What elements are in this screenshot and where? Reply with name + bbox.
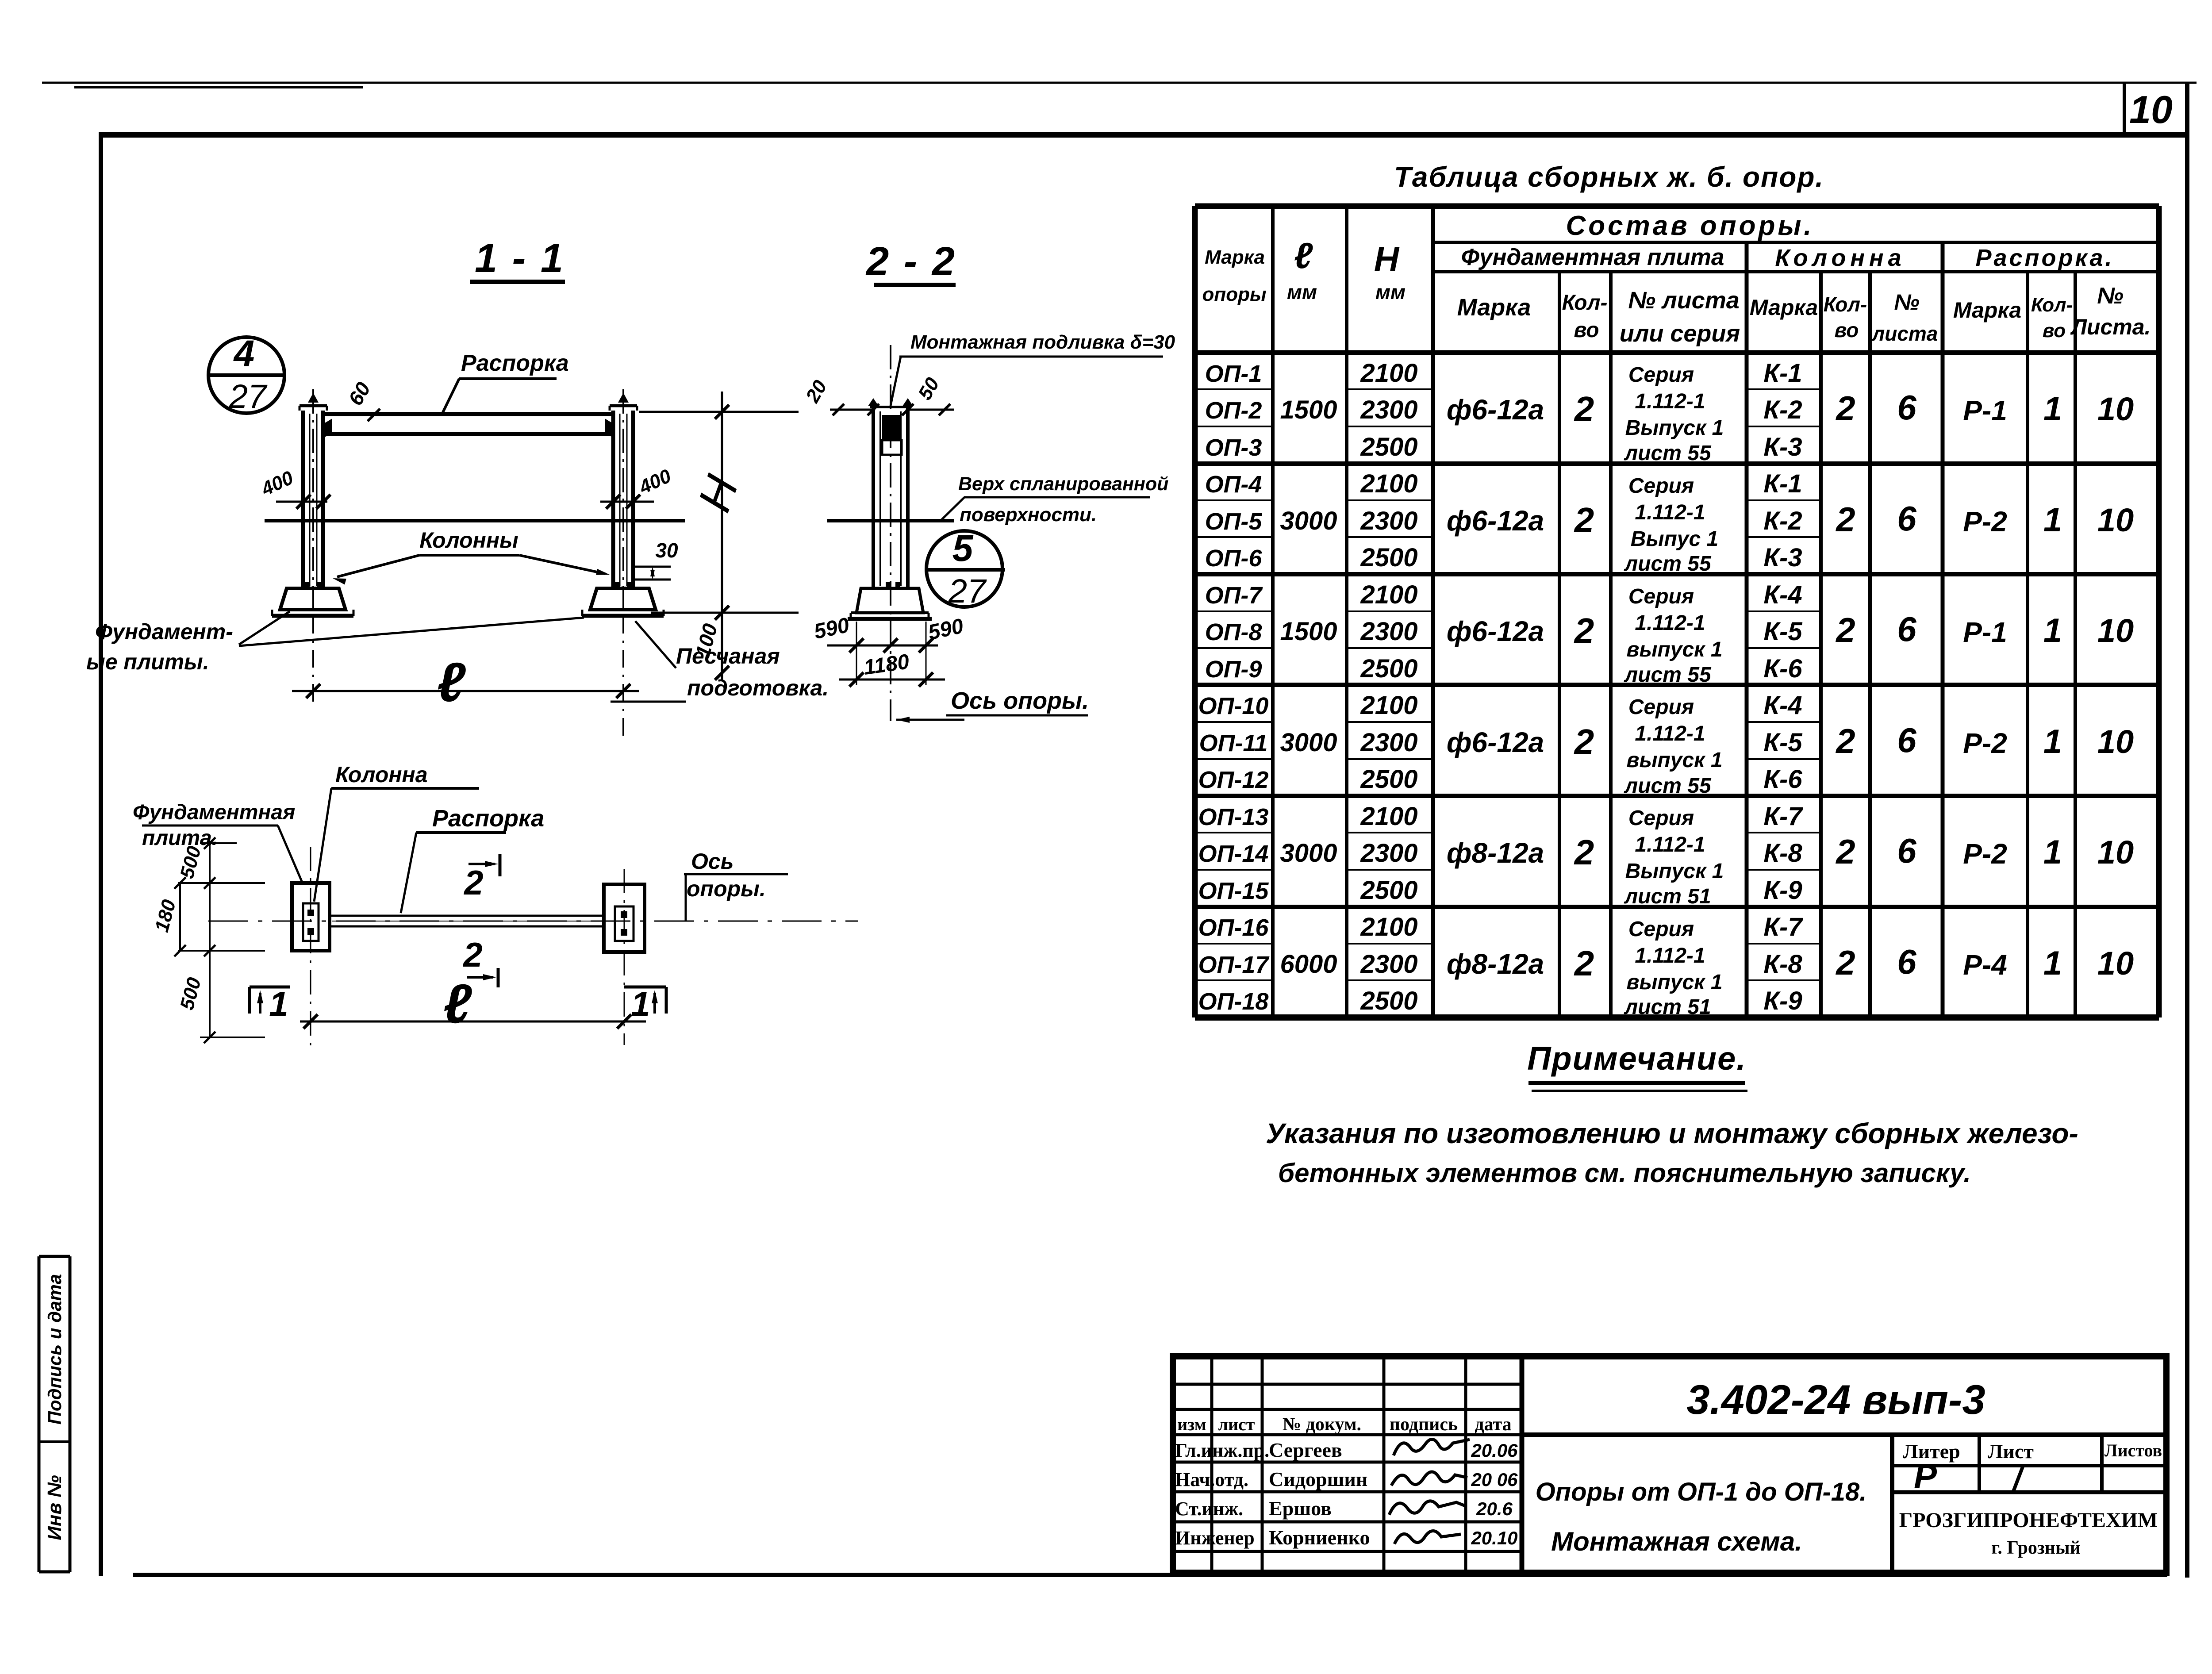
svg-text:ые плиты.: ые плиты. — [86, 649, 209, 674]
svg-text:поверхности.: поверхности. — [960, 504, 1097, 526]
svg-text:К-9: К-9 — [1763, 987, 1802, 1015]
svg-text:2300: 2300 — [1360, 839, 1417, 868]
svg-text:Кол-: Кол- — [1824, 293, 1867, 316]
svg-text:5: 5 — [952, 527, 974, 569]
svg-text:2: 2 — [1835, 610, 1855, 649]
svg-text:2100: 2100 — [1360, 359, 1417, 388]
svg-text:№ листа: № листа — [1628, 287, 1740, 314]
svg-text:1.112-1: 1.112-1 — [1635, 722, 1705, 745]
svg-text:Корниенко: Корниенко — [1269, 1526, 1370, 1549]
svg-text:Ст.инж.: Ст.инж. — [1175, 1498, 1243, 1520]
svg-text:Р-1: Р-1 — [1963, 395, 2007, 426]
svg-text:30: 30 — [655, 539, 678, 562]
svg-text:ОП-4: ОП-4 — [1205, 471, 1262, 498]
svg-text:дата: дата — [1475, 1414, 1511, 1435]
svg-text:Фундаментная: Фундаментная — [133, 801, 295, 824]
svg-text:1500: 1500 — [1280, 617, 1337, 646]
svg-text:К-2: К-2 — [1763, 395, 1802, 424]
svg-text:ОП-16: ОП-16 — [1198, 914, 1269, 941]
svg-text:Фундаментная плита: Фундаментная плита — [1461, 244, 1724, 270]
svg-text:Выпус 1: Выпус 1 — [1631, 527, 1718, 551]
svg-text:Верх спланированной: Верх спланированной — [958, 473, 1168, 495]
svg-text:Р-2: Р-2 — [1963, 727, 2007, 759]
svg-text:К-8: К-8 — [1763, 950, 1802, 979]
svg-text:Р: Р — [1914, 1457, 1937, 1496]
svg-text:2: 2 — [1574, 833, 1594, 872]
svg-text:Распорка: Распорка — [461, 350, 569, 376]
svg-text:лист 55: лист 55 — [1624, 552, 1712, 576]
svg-text:Лист: Лист — [1988, 1440, 2034, 1463]
svg-text:во: во — [2043, 320, 2066, 342]
svg-text:подпись: подпись — [1390, 1414, 1458, 1435]
svg-text:К-7: К-7 — [1763, 913, 1803, 941]
svg-text:Р-4: Р-4 — [1963, 949, 2007, 981]
svg-text:1: 1 — [631, 984, 650, 1023]
svg-text:К-4: К-4 — [1763, 580, 1802, 609]
svg-text:6: 6 — [1897, 388, 1916, 427]
svg-text:№: № — [1894, 290, 1919, 315]
svg-text:Кол-: Кол- — [2031, 294, 2073, 316]
svg-text:2300: 2300 — [1360, 728, 1417, 757]
svg-text:500: 500 — [176, 975, 205, 1012]
svg-text:3000: 3000 — [1280, 728, 1337, 757]
svg-text:2500: 2500 — [1360, 876, 1417, 905]
svg-text:выпуск 1: выпуск 1 — [1626, 971, 1722, 994]
svg-text:27: 27 — [229, 378, 268, 415]
svg-text:ГРОЗГИПРОНЕФТЕХИМ: ГРОЗГИПРОНЕФТЕХИМ — [1899, 1509, 2158, 1532]
svg-text:10: 10 — [2097, 834, 2134, 871]
svg-text:2500: 2500 — [1360, 987, 1417, 1015]
svg-text:ОП-14: ОП-14 — [1198, 841, 1269, 867]
svg-text:1.112-1: 1.112-1 — [1635, 611, 1705, 635]
svg-text:Серия: Серия — [1628, 363, 1694, 387]
svg-text:Серия: Серия — [1628, 918, 1694, 941]
svg-text:1.112-1: 1.112-1 — [1635, 501, 1705, 524]
svg-text:10: 10 — [2097, 723, 2134, 760]
svg-text:2: 2 — [463, 863, 483, 902]
svg-text:10: 10 — [2097, 945, 2134, 982]
svg-text:Серия: Серия — [1628, 806, 1694, 830]
svg-text:2: 2 — [1835, 500, 1855, 539]
svg-text:20.6: 20.6 — [1476, 1498, 1513, 1519]
svg-text:1: 1 — [269, 984, 288, 1023]
svg-text:К-5: К-5 — [1763, 728, 1802, 757]
svg-text:6: 6 — [1897, 942, 1916, 981]
svg-text:Примечание.: Примечание. — [1527, 1040, 1747, 1077]
svg-text:ф8-12а: ф8-12а — [1447, 837, 1544, 869]
svg-text:Распорка: Распорка — [432, 805, 544, 832]
svg-text:2100: 2100 — [1360, 802, 1417, 831]
svg-text:Сидоршин: Сидоршин — [1269, 1468, 1367, 1490]
svg-text:Серия: Серия — [1628, 474, 1694, 498]
svg-text:2 - 2: 2 - 2 — [865, 239, 956, 284]
svg-text:Листов: Листов — [2104, 1440, 2162, 1460]
svg-text:выпуск 1: выпуск 1 — [1626, 749, 1722, 772]
svg-text:2100: 2100 — [1360, 913, 1417, 941]
svg-text:H: H — [1374, 239, 1400, 278]
svg-text:ОП-7: ОП-7 — [1205, 582, 1263, 609]
svg-text:Состав опоры.: Состав опоры. — [1566, 211, 1814, 241]
svg-text:2300: 2300 — [1360, 395, 1417, 424]
svg-text:Выпуск 1: Выпуск 1 — [1625, 860, 1724, 883]
svg-text:ф8-12а: ф8-12а — [1447, 948, 1544, 980]
svg-text:опоры: опоры — [1202, 284, 1266, 305]
svg-text:2100: 2100 — [1360, 691, 1417, 720]
svg-text:Инв №: Инв № — [44, 1475, 65, 1540]
svg-text:К-1: К-1 — [1763, 469, 1802, 498]
svg-text:Листа.: Листа. — [2070, 315, 2151, 339]
svg-text:Р-2: Р-2 — [1963, 506, 2007, 538]
svg-text:20.06: 20.06 — [1471, 1440, 1518, 1461]
svg-text:ф6-12а: ф6-12а — [1447, 394, 1544, 426]
svg-text:ОП-9: ОП-9 — [1205, 656, 1262, 683]
svg-text:ОП-18: ОП-18 — [1198, 988, 1269, 1015]
svg-text:2: 2 — [1835, 722, 1855, 760]
svg-text:2500: 2500 — [1360, 765, 1417, 794]
svg-text:Р-2: Р-2 — [1963, 838, 2007, 870]
svg-text:6000: 6000 — [1280, 950, 1337, 979]
svg-text:ОП-13: ОП-13 — [1198, 804, 1269, 830]
svg-text:590: 590 — [812, 614, 852, 644]
svg-text:Ось: Ось — [691, 849, 733, 874]
svg-text:3.402-24 вып-3: 3.402-24 вып-3 — [1686, 1376, 1985, 1423]
svg-text:К-5: К-5 — [1763, 617, 1802, 646]
svg-text:Таблица сборных ж. б. опор.: Таблица сборных ж. б. опор. — [1394, 161, 1824, 193]
svg-text:Фундамент-: Фундамент- — [95, 619, 233, 644]
svg-text:мм: мм — [1375, 280, 1406, 303]
svg-text:Опоры от ОП-1 до ОП-18.: Опоры от ОП-1 до ОП-18. — [1536, 1478, 1867, 1506]
svg-text:ОП-6: ОП-6 — [1205, 545, 1263, 572]
svg-text:1.112-1: 1.112-1 — [1635, 944, 1705, 968]
svg-text:К-9: К-9 — [1763, 876, 1802, 905]
svg-text:20 06: 20 06 — [1471, 1469, 1518, 1490]
svg-text:К-4: К-4 — [1763, 691, 1802, 720]
svg-text:листа: листа — [1871, 322, 1938, 345]
svg-text:ОП-12: ОП-12 — [1198, 767, 1269, 793]
svg-text:Инженер: Инженер — [1175, 1527, 1255, 1549]
svg-text:2300: 2300 — [1360, 950, 1417, 979]
svg-text:лист 51: лист 51 — [1624, 995, 1711, 1019]
svg-text:400: 400 — [635, 465, 675, 499]
svg-text:во: во — [1574, 319, 1599, 342]
svg-text:2: 2 — [1574, 611, 1594, 650]
svg-text:400: 400 — [257, 467, 297, 500]
svg-text:Колонна: Колонна — [335, 762, 428, 787]
svg-text:1: 1 — [2043, 723, 2062, 760]
svg-text:Марка: Марка — [1457, 294, 1531, 321]
svg-text:ОП-8: ОП-8 — [1205, 619, 1262, 645]
svg-text:бетонных элементов см. поясн: бетонных элементов см. пояснительную зап… — [1278, 1158, 1971, 1188]
svg-text:Указания по изготовлению и: Указания по изготовлению и монтажу сборн… — [1266, 1117, 2078, 1149]
svg-text:2100: 2100 — [1360, 469, 1417, 498]
svg-text:выпуск 1: выпуск 1 — [1626, 638, 1722, 661]
svg-text:2: 2 — [1574, 500, 1594, 540]
svg-text:2300: 2300 — [1360, 507, 1417, 535]
svg-text:ℓ: ℓ — [1294, 236, 1313, 276]
svg-text:изм: изм — [1177, 1414, 1206, 1434]
svg-text:1.112-1: 1.112-1 — [1635, 833, 1705, 856]
svg-text:Сергеев: Сергеев — [1269, 1439, 1342, 1461]
svg-text:Колонна: Колонна — [1775, 245, 1905, 271]
svg-text:1: 1 — [2043, 390, 2062, 428]
svg-text:Гл.инж.пр.: Гл.инж.пр. — [1175, 1440, 1269, 1461]
svg-text:ОП-3: ОП-3 — [1205, 434, 1262, 461]
svg-text:2500: 2500 — [1360, 543, 1417, 572]
svg-text:2300: 2300 — [1360, 617, 1417, 646]
svg-text:мм: мм — [1287, 280, 1317, 303]
svg-text:или серия: или серия — [1620, 320, 1740, 347]
svg-text:2: 2 — [1574, 944, 1594, 983]
svg-text:№: № — [2097, 283, 2124, 309]
svg-text:6: 6 — [1897, 610, 1916, 649]
svg-text:2500: 2500 — [1360, 654, 1417, 683]
svg-text:опоры.: опоры. — [687, 876, 766, 901]
svg-text:3000: 3000 — [1280, 507, 1337, 535]
svg-text:20: 20 — [801, 376, 831, 407]
svg-text:К-8: К-8 — [1763, 839, 1802, 868]
svg-text:лист 51: лист 51 — [1624, 885, 1711, 908]
svg-text:подготовка.: подготовка. — [687, 676, 829, 700]
svg-text:Нач.отд.: Нач.отд. — [1175, 1469, 1248, 1490]
svg-text:2500: 2500 — [1360, 433, 1417, 461]
svg-text:г. Грозный: г. Грозный — [1991, 1538, 2081, 1558]
svg-text:4: 4 — [233, 333, 255, 374]
svg-text:1 - 1: 1 - 1 — [475, 236, 565, 281]
svg-text:1: 1 — [2043, 833, 2062, 871]
svg-text:Выпуск 1: Выпуск 1 — [1625, 416, 1724, 440]
svg-text:1.112-1: 1.112-1 — [1635, 390, 1705, 413]
svg-text:1180: 1180 — [862, 650, 911, 680]
svg-text:№ докум.: № докум. — [1283, 1414, 1361, 1435]
svg-text:Песчаная: Песчаная — [676, 644, 780, 668]
svg-text:Монтажная подливка δ=30: Монтажная подливка δ=30 — [910, 331, 1175, 353]
svg-text:ОП-17: ОП-17 — [1198, 952, 1270, 978]
svg-text:2: 2 — [1835, 832, 1855, 871]
svg-text:10: 10 — [2129, 88, 2173, 131]
svg-text:3000: 3000 — [1280, 839, 1337, 868]
svg-text:Серия: Серия — [1628, 585, 1694, 608]
svg-text:ОП-5: ОП-5 — [1205, 508, 1263, 535]
svg-text:Ершов: Ершов — [1269, 1497, 1332, 1520]
svg-text:Марка: Марка — [1205, 246, 1265, 268]
svg-text:6: 6 — [1897, 499, 1916, 538]
svg-text:6: 6 — [1897, 721, 1916, 760]
svg-text:27: 27 — [948, 572, 987, 610]
svg-text:ОП-10: ОП-10 — [1198, 693, 1269, 719]
svg-text:20.10: 20.10 — [1471, 1528, 1517, 1548]
svg-text:Марка: Марка — [1953, 298, 2021, 323]
svg-text:Ось опоры.: Ось опоры. — [951, 687, 1089, 714]
svg-text:180: 180 — [151, 897, 180, 934]
svg-text:6: 6 — [1897, 831, 1916, 870]
svg-text:К-1: К-1 — [1763, 359, 1802, 388]
svg-text:К-7: К-7 — [1763, 802, 1803, 831]
svg-text:лист 55: лист 55 — [1624, 774, 1712, 798]
svg-text:H: H — [688, 469, 749, 518]
svg-text:2: 2 — [1574, 722, 1594, 761]
svg-text:2: 2 — [1835, 943, 1855, 982]
svg-text:во: во — [1835, 319, 1859, 342]
svg-text:Распорка.: Распорка. — [1975, 245, 2114, 271]
svg-text:10: 10 — [2097, 391, 2134, 427]
svg-text:10: 10 — [2097, 612, 2134, 649]
svg-text:1: 1 — [2043, 945, 2062, 982]
svg-text:Колонны: Колонны — [419, 528, 518, 553]
svg-text:ОП-2: ОП-2 — [1205, 397, 1262, 424]
svg-text:60: 60 — [344, 378, 375, 409]
svg-text:Р-1: Р-1 — [1963, 616, 2007, 648]
svg-text:ф6-12а: ф6-12а — [1447, 505, 1544, 537]
svg-text:ℓ: ℓ — [443, 973, 472, 1035]
svg-text:1: 1 — [2043, 612, 2062, 649]
svg-text:лист 55: лист 55 — [1624, 442, 1712, 465]
svg-text:Марка: Марка — [1750, 295, 1818, 320]
svg-text:Подпись и дата: Подпись и дата — [44, 1274, 65, 1424]
svg-text:К-2: К-2 — [1763, 507, 1802, 535]
svg-text:К-3: К-3 — [1763, 433, 1802, 461]
svg-text:2: 2 — [1835, 389, 1855, 428]
svg-text:1: 1 — [2043, 501, 2062, 539]
svg-text:ОП-15: ОП-15 — [1198, 878, 1269, 904]
svg-text:2: 2 — [462, 935, 482, 974]
svg-text:К-6: К-6 — [1763, 765, 1802, 794]
svg-text:50: 50 — [914, 374, 944, 403]
svg-text:ф6-12а: ф6-12а — [1447, 726, 1544, 758]
svg-text:1500: 1500 — [1280, 395, 1337, 424]
svg-text:ф6-12а: ф6-12а — [1447, 615, 1544, 647]
svg-text:лист: лист — [1218, 1414, 1255, 1434]
svg-text:ОП-1: ОП-1 — [1205, 361, 1262, 387]
svg-text:2100: 2100 — [1360, 580, 1417, 609]
svg-text:Кол-: Кол- — [1562, 291, 1608, 315]
svg-text:лист 55: лист 55 — [1624, 663, 1712, 687]
svg-text:10: 10 — [2097, 502, 2134, 538]
svg-text:ОП-11: ОП-11 — [1199, 730, 1268, 756]
svg-text:2: 2 — [1574, 389, 1594, 429]
svg-text:Серия: Серия — [1628, 695, 1694, 719]
svg-text:К-3: К-3 — [1763, 543, 1802, 572]
svg-text:ℓ: ℓ — [437, 652, 466, 713]
svg-text:Монтажная схема.: Монтажная схема. — [1551, 1527, 1802, 1556]
svg-text:К-6: К-6 — [1763, 654, 1802, 683]
